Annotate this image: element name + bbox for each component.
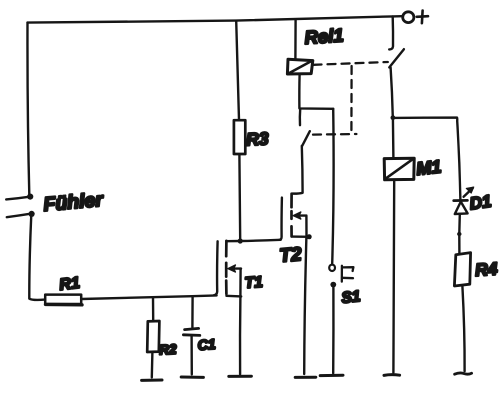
node T2 source junction [307, 234, 312, 239]
wire R3 to T1 drain junction [238, 154, 241, 240]
transistor T2 [279, 194, 309, 240]
ground C1 [181, 376, 203, 379]
wire R1 to T1 gate [82, 295, 217, 299]
ground T2 [295, 376, 316, 379]
svg-text:T1: T1 [244, 274, 263, 292]
wire + terminal to contact K1b [389, 16, 393, 49]
wire T2 source to ground [304, 237, 306, 374]
sensor Fühler contacts [6, 194, 35, 218]
wire relay branch from top rail [294, 19, 297, 58]
wire M1 to ground [392, 180, 395, 373]
relay coil M1 [384, 158, 414, 180]
transistor T1 [214, 241, 241, 297]
wire S1 to ground [332, 287, 335, 373]
switch S1 actuator [342, 266, 354, 282]
switch S1 lower contact [330, 282, 336, 288]
ground M1 [384, 373, 400, 377]
wire R3 branch from top rail [236, 21, 239, 120]
node T1 drain junction [238, 238, 243, 243]
wire junction to D1 branch [393, 118, 461, 201]
resistor R2 [147, 321, 159, 352]
capacitor C1 [183, 328, 199, 335]
svg-text:T2: T2 [279, 244, 303, 267]
ground S1 [320, 374, 343, 377]
wire sensor to R1 [29, 215, 45, 300]
wire C1 to ground [190, 336, 193, 375]
wire top rail [28, 16, 402, 22]
node blob on D1 lead [457, 232, 461, 236]
resistor R3 [234, 120, 245, 154]
wire left vertical from top rail to sensor [27, 23, 29, 195]
wire R2 branch [152, 297, 155, 321]
wire R2 to ground [151, 352, 154, 377]
ground R4 [455, 373, 472, 374]
wire contact K1a to T2 drain [292, 146, 303, 194]
svg-text:D1: D1 [468, 192, 492, 214]
svg-text:R3: R3 [246, 128, 270, 149]
terminal + positive supply [403, 11, 428, 24]
dashed linkage relay to contacts [313, 62, 388, 135]
svg-text:Fühler: Fühler [43, 189, 106, 216]
svg-text:S1: S1 [341, 288, 362, 307]
svg-text:M1: M1 [415, 156, 442, 179]
wire S1 upper lead [332, 109, 333, 264]
wire contact K1b down to junction [391, 67, 393, 117]
svg-text:R4: R4 [474, 258, 498, 280]
svg-text:Rel1: Rel1 [304, 24, 344, 48]
wire C1 branch [191, 296, 194, 327]
svg-text:R1: R1 [58, 275, 80, 294]
relay coil Rel1 [287, 59, 312, 74]
svg-text:R2: R2 [159, 342, 178, 358]
ground T1 [229, 375, 252, 378]
wire D1 to R4 [458, 214, 461, 253]
wire junction to M1 coil [392, 118, 395, 159]
ground R2 [142, 379, 162, 382]
resistor R4 [454, 253, 470, 286]
relay contact K1a blade [302, 131, 310, 146]
diode D1 LED [454, 187, 474, 214]
svg-text:C1: C1 [197, 336, 216, 353]
wire relay coil to S1 column [299, 74, 333, 108]
wire T1 drain to T2 gate [240, 240, 280, 241]
relay contact K1b blade [389, 49, 404, 67]
relay contact K1a fixed lead [299, 109, 302, 125]
wire R4 to ground [462, 286, 464, 371]
node M1 branch junction [391, 115, 396, 120]
wire T1 source to ground [239, 296, 242, 374]
resistor R1 [45, 295, 82, 305]
switch S1 upper contact [329, 265, 335, 271]
